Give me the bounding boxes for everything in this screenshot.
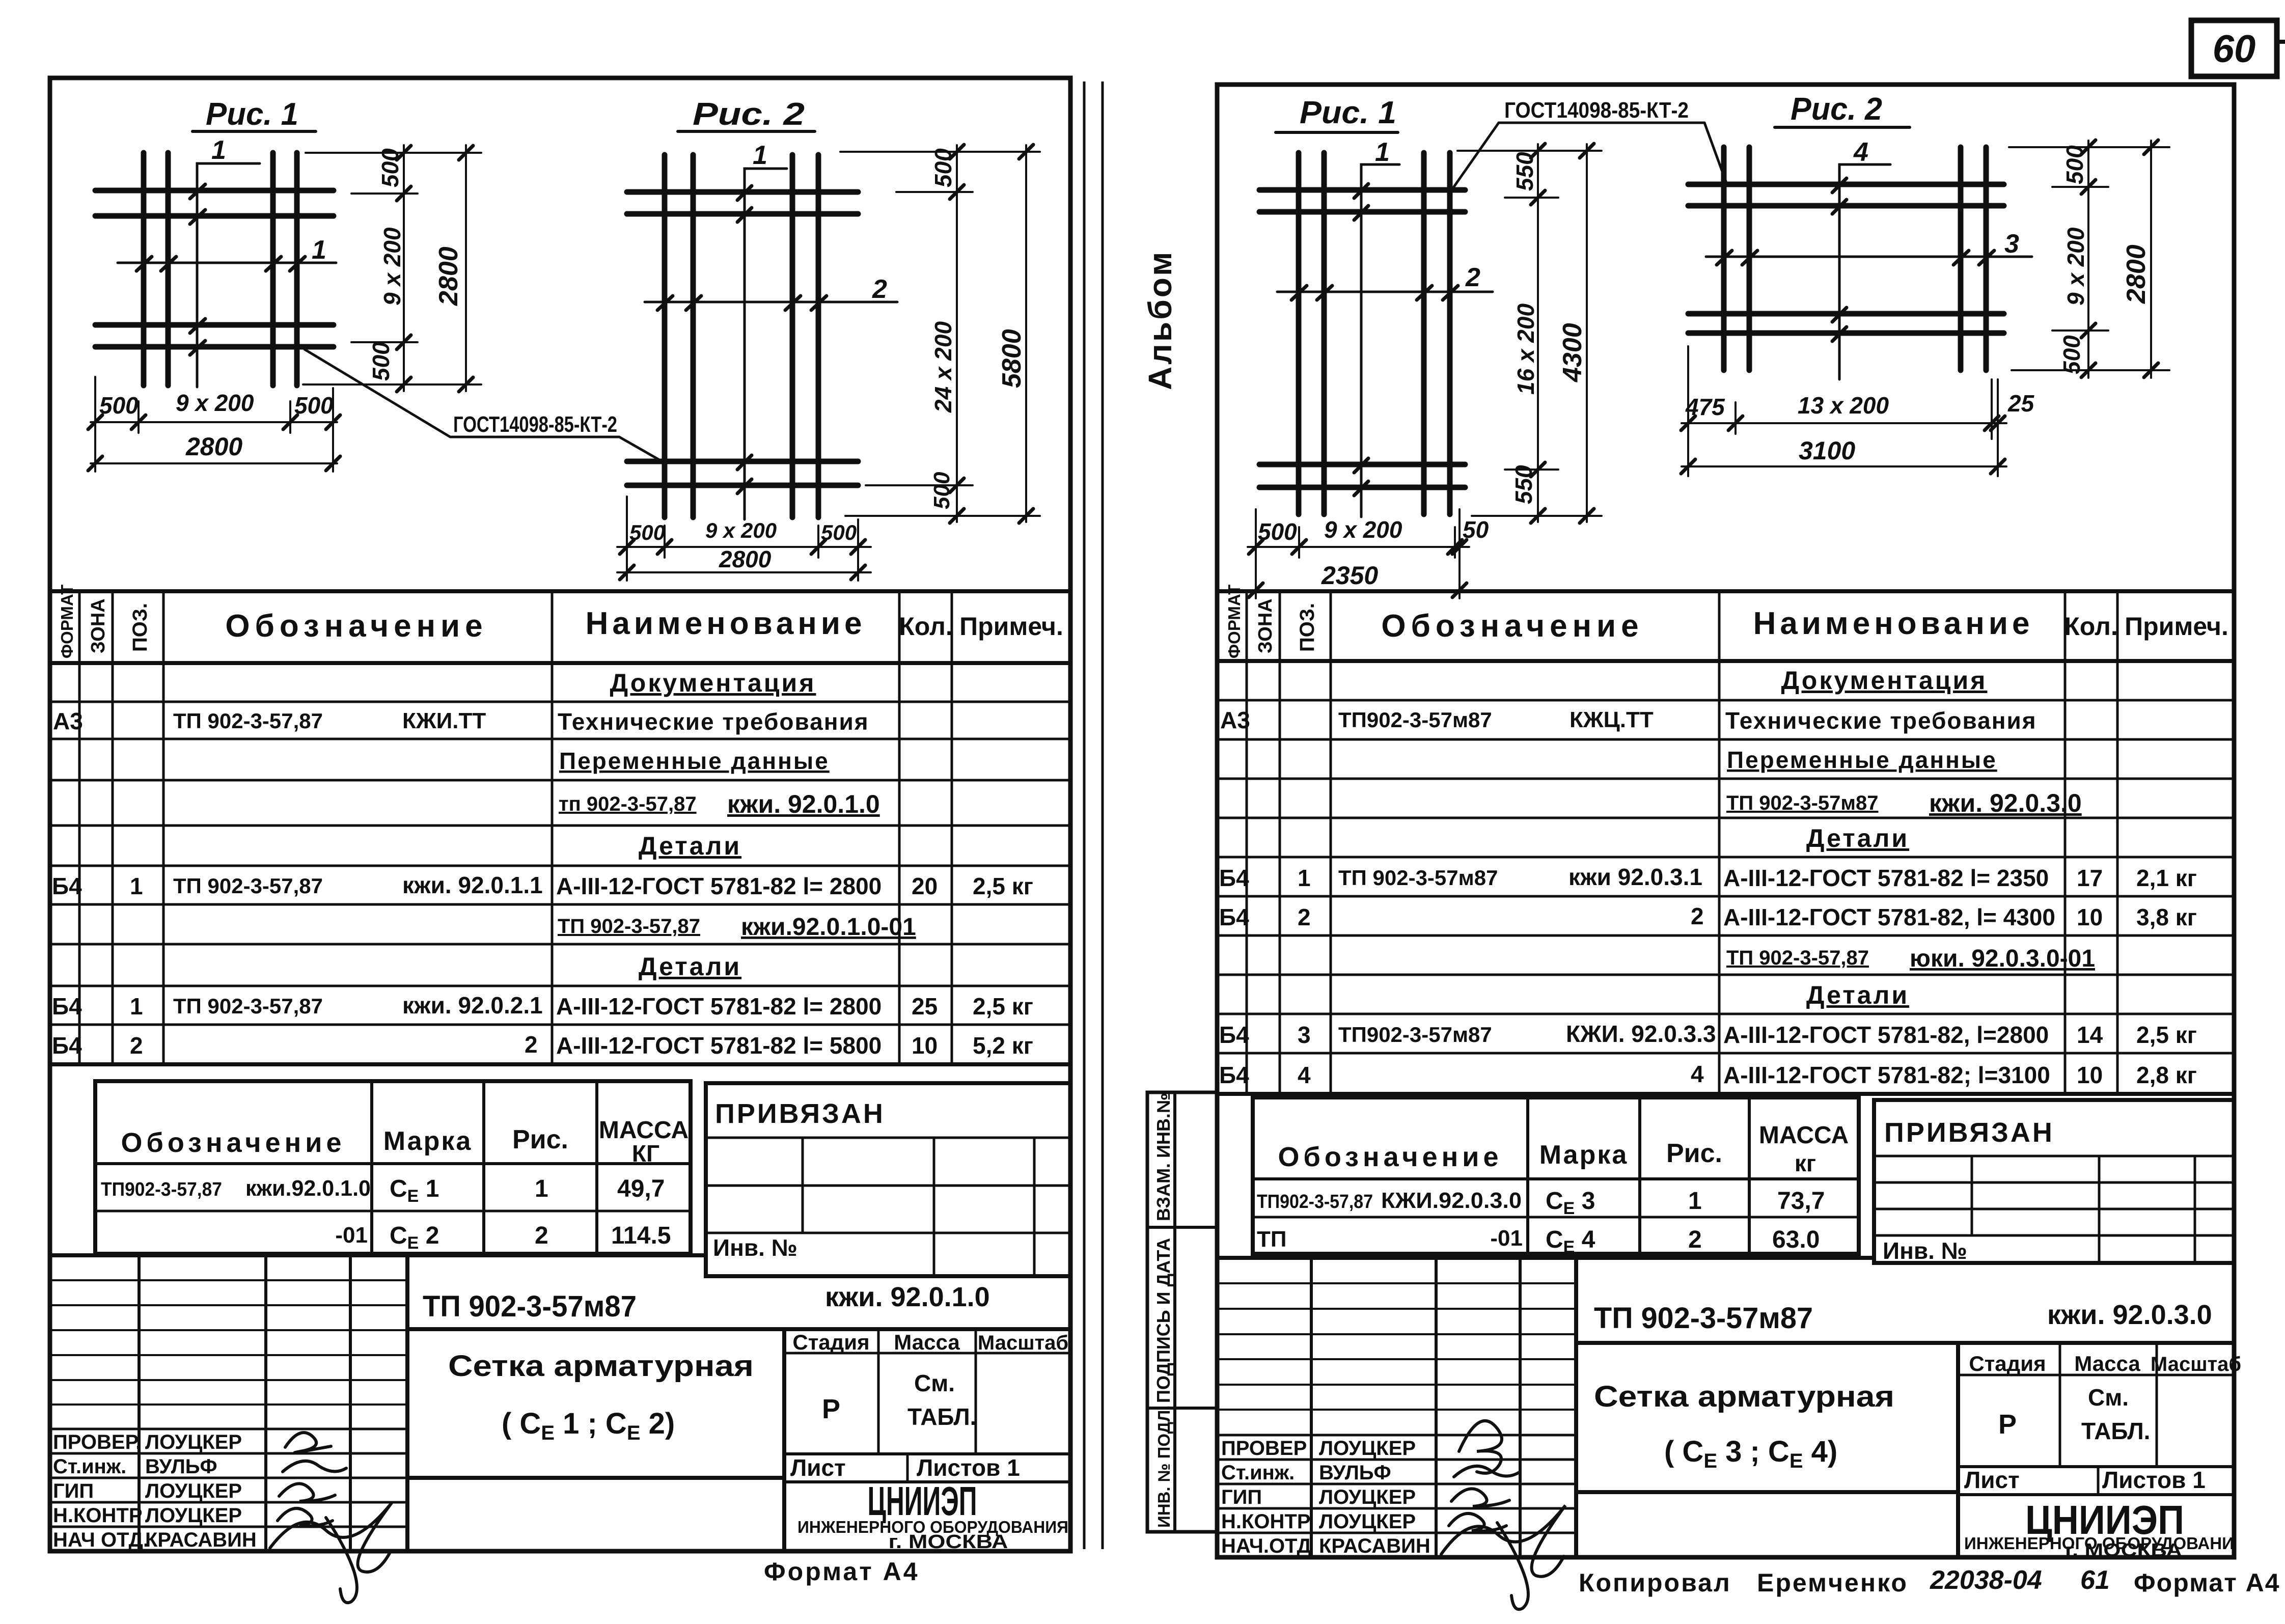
r-fig1 ticks vertical cut [1354,184,1368,496]
svg-text:550: 550 [1510,465,1537,504]
svg-text:25: 25 [912,993,938,1020]
right title sig row 2 [1217,1458,1576,1461]
right spec table header bottom [1217,659,2234,663]
right title row u2 [1217,1308,1576,1310]
r-fig1 dim line v1 16x200 [1537,144,1539,522]
right signature prover [1459,1421,1502,1473]
right title row u6 [1217,1409,1576,1411]
svg-text:2: 2 [872,274,887,304]
right spec row line 7 [1217,934,2234,937]
svg-text:кг: кг [1795,1150,1816,1176]
left spec row line 9 [50,1024,1070,1026]
svg-text:ТАБЛ.: ТАБЛ. [907,1403,976,1430]
r-fig2 extension bottom [2012,369,2169,371]
svg-text:ТП 902-3-57,87: ТП 902-3-57,87 [558,915,700,938]
svg-text:475: 475 [1685,394,1725,420]
ticks fig2 dim h1 [620,540,865,554]
svg-text:СЕ 4: СЕ 4 [1546,1226,1595,1257]
section 1 ticks on horizontal cut [136,257,305,271]
svg-text:2: 2 [130,1032,143,1059]
svg-text:Сетка арматурная: Сетка арматурная [1594,1380,1894,1413]
mesh M2 horizontal bar h3 [627,459,858,464]
left spec row line 5 [50,865,1070,867]
svg-text:2,5 кг: 2,5 кг [973,873,1033,899]
svg-text:Документация: Документация [1781,666,1988,695]
left title row u5 [50,1379,407,1381]
r-fig1 extension 550 bottom [1505,469,1558,471]
right spec row line 9 [1217,1013,2234,1015]
svg-text:ГОСТ14098-85-КТ-2: ГОСТ14098-85-КТ-2 [1504,98,1689,123]
svg-text:КРАСАВИН: КРАСАВИН [1319,1535,1430,1557]
r-fig2 ticks horizontal cut [1717,251,1994,265]
right signature n-kontr [1449,1513,1506,1531]
svg-text:Формат А4: Формат А4 [764,1557,920,1586]
dim line h1 500/9x200/500 [91,421,337,423]
fig2 extension 500 top [896,191,973,193]
svg-text:2: 2 [1691,903,1704,929]
left title row u4 [50,1354,407,1356]
svg-text:500: 500 [294,392,334,419]
svg-text:Масштаб: Масштаб [978,1332,1068,1354]
album divider line a [1083,81,1086,1549]
svg-text:юки. 92.0.3.0-01: юки. 92.0.3.0-01 [1910,945,2095,972]
svg-text:Кол.: Кол. [2064,612,2117,641]
svg-text:Ст.инж.: Ст.инж. [1221,1462,1295,1484]
svg-text:Еремченко: Еремченко [1757,1568,1908,1597]
svg-text:кжи. 92.0.3.0: кжи. 92.0.3.0 [2047,1300,2212,1330]
svg-text:1: 1 [312,235,326,265]
right signature st-inj [1454,1466,1520,1477]
svg-text:Н.КОНТР: Н.КОНТР [1221,1510,1311,1533]
right title row u5 [1217,1384,1576,1386]
svg-text:См.: См. [914,1370,955,1396]
section line 1-1 horizontal [118,262,336,264]
right title sig row 3 [1217,1483,1576,1485]
ticks dim h1 [88,415,340,429]
svg-text:2350: 2350 [1321,561,1378,590]
right spec col line kol [2116,591,2119,1094]
svg-text:500: 500 [2058,335,2085,374]
svg-text:2,5 кг: 2,5 кг [2136,1022,2197,1048]
svg-text:2,1 кг: 2,1 кг [2136,865,2197,891]
svg-text:Б4: Б4 [1219,904,1249,930]
svg-text:2,8 кг: 2,8 кг [2136,1062,2197,1088]
left small col massa [595,1081,598,1254]
svg-text:10: 10 [2077,904,2103,930]
r-fig2 dim line h2 3100 [1682,465,2006,467]
svg-text:9 x 200: 9 x 200 [2062,227,2089,306]
svg-text:4: 4 [1853,137,1868,167]
left list col [906,1454,909,1482]
mesh M2 vertical bar v4 [816,155,821,517]
r-fig2 dim line v2 2800 [2150,141,2152,378]
left spec table header bottom [50,661,1070,665]
svg-text:2800: 2800 [2122,244,2151,304]
left spec row line 8 [50,985,1070,987]
svg-text:Рис. 1: Рис. 1 [206,97,298,132]
left privyazan col 2 [933,1138,935,1276]
mesh M3 vertical bar v4 [1447,153,1453,514]
section line 2-2 horizontal fig2 [645,301,897,304]
svg-text:А-III-12-ГОСТ 5781-82, l=2800: А-III-12-ГОСТ 5781-82, l=2800 [1723,1022,2049,1048]
svg-text:ТП 902-3-57м87: ТП 902-3-57м87 [423,1290,637,1323]
svg-text:Лист: Лист [1964,1467,2020,1493]
left title top border [50,1253,706,1257]
svg-text:ЛОУЦКЕР: ЛОУЦКЕР [1319,1510,1416,1533]
svg-text:А-III-12-ГОСТ 5781-82 l= 5800: А-III-12-ГОСТ 5781-82 l= 5800 [556,1032,882,1059]
left small col marka [370,1081,373,1254]
svg-text:13 x 200: 13 x 200 [1798,392,1889,419]
right spec col line oboznachenie [1718,591,1721,1094]
svg-text:Лист: Лист [790,1454,846,1481]
mesh M1 horizontal bar h1 [95,188,334,194]
svg-text:500: 500 [821,520,857,544]
left small col ris [482,1081,485,1254]
svg-text:-01: -01 [335,1223,368,1248]
mesh M2 horizontal bar h1 [627,189,858,195]
svg-text:Инв. №: Инв. № [1883,1237,1967,1264]
svg-text:500: 500 [2061,145,2088,184]
mesh M2 vertical bar v2 [691,155,696,517]
svg-text:Технические требования: Технические требования [1725,707,2037,734]
svg-text:60: 60 [2213,27,2256,71]
svg-text:114.5: 114.5 [611,1222,671,1249]
r-fig2 section line 3 horizontal [1706,256,2032,258]
svg-text:ПРОВЕР.: ПРОВЕР. [53,1431,141,1453]
svg-text:63.0: 63.0 [1772,1226,1820,1253]
fig2 dim line v1 24x200 [956,145,958,522]
r-fig2 bottom extension x=3408 [1735,402,1737,434]
left title row u3 [50,1329,407,1331]
svg-text:ГИП: ГИП [53,1480,94,1502]
mesh M3 vertical bar v1 [1296,153,1302,514]
svg-text:НАЧ ОТД.: НАЧ ОТД. [53,1529,149,1551]
svg-text:Листов 1: Листов 1 [917,1454,1020,1481]
r-fig1 ticks horizontal cut [1291,286,1458,300]
r-fig2 ticks vertical cut [1832,178,1847,341]
svg-text:Стадия: Стадия [792,1330,869,1354]
svg-text:Б4: Б4 [52,993,82,1020]
svg-text:500: 500 [377,148,403,187]
r-fig1 extension 550 top [1505,197,1558,199]
svg-text:9 x 200: 9 x 200 [1324,516,1402,543]
svg-text:Переменные данные: Переменные данные [1727,747,1997,773]
fig2 title underline [678,130,815,133]
svg-text:3,8 кг: 3,8 кг [2136,904,2197,930]
svg-text:Примеч.: Примеч. [959,612,1063,641]
right privyazan line 2 [1874,1181,2234,1184]
mesh M4 vertical bar v4 [1984,147,1989,370]
svg-text:КРАСАВИН: КРАСАВИН [145,1529,257,1551]
left title sig row 5 [50,1526,407,1528]
fig2 bottom extension x=1607 [817,526,819,558]
svg-text:См.: См. [2088,1384,2129,1411]
fig2 extension top [840,151,1040,153]
svg-text:1: 1 [130,993,143,1020]
r-fig2 section line vertical [1839,164,1890,379]
svg-text:550: 550 [1511,152,1538,191]
mesh M1 horizontal bar h4 [95,344,334,350]
svg-text:Б4: Б4 [1219,1022,1249,1048]
left spec row line 3 [50,779,1070,782]
svg-text:Рис.: Рис. [512,1125,568,1154]
svg-text:ПОЗ.: ПОЗ. [129,603,151,652]
mesh M4 vertical bar v3 [1958,147,1964,370]
svg-text:Кол.: Кол. [899,612,952,641]
svg-text:НАЧ.ОТД: НАЧ.ОТД [1221,1535,1311,1557]
right title sig row 1 [1217,1434,1576,1437]
mesh M3 vertical bar v3 [1421,153,1427,514]
svg-text:ФОРМАТ: ФОРМАТ [58,585,76,658]
left spec col line zona [112,591,114,1064]
mesh M4 vertical bar v1 [1721,147,1727,370]
stamp column divider vertical [1173,1092,1176,1532]
left privyazan line 2 [706,1185,1070,1187]
svg-text:Инв. №: Инв. № [713,1234,797,1261]
extension line 500 upper [351,192,418,195]
svg-text:Обозначение: Обозначение [121,1127,345,1158]
mesh M3 vertical bar v2 [1322,153,1327,514]
svg-text:кжи.92.0.1.0: кжи.92.0.1.0 [245,1176,371,1201]
svg-text:Марка: Марка [383,1126,473,1156]
svg-text:Б4: Б4 [1219,1062,1249,1088]
svg-text:ВЗАМ. ИНВ.№: ВЗАМ. ИНВ.№ [1153,1093,1174,1221]
svg-text:Переменные данные: Переменные данные [559,748,830,774]
mesh M1 vertical bar v2 [166,153,171,386]
right spec table top border [1217,589,2234,593]
svg-text:Б4: Б4 [1219,865,1249,891]
svg-text:Рис. 1: Рис. 1 [1300,95,1396,130]
svg-text:Рис. 2: Рис. 2 [693,97,805,132]
left title sig row 3 [50,1477,407,1479]
right privyazan line 3 [1874,1208,2234,1210]
left small table row line [95,1210,691,1213]
left title col c [349,1255,352,1551]
svg-text:КЖИ.ТТ: КЖИ.ТТ [402,708,486,733]
svg-text:Стадия: Стадия [1969,1352,2046,1375]
right stadia col 1 [2059,1343,2061,1467]
svg-text:3: 3 [2004,229,2019,259]
svg-text:ТП902-3-57м87: ТП902-3-57м87 [1338,708,1492,732]
extension line 500 lower [351,341,418,343]
svg-text:25: 25 [2007,390,2035,417]
svg-text:9 x 200: 9 x 200 [176,390,254,416]
right spec row line 10 [1217,1052,2234,1055]
left title sig row 4 [50,1501,407,1504]
left privyazan line 1 [706,1137,1070,1139]
svg-text:ВУЛЬФ: ВУЛЬФ [1319,1462,1391,1484]
left title name bottom [407,1476,784,1480]
right title stamp col [1956,1343,1960,1557]
left spec col line naimenovanie [898,591,901,1064]
svg-text:Копировал: Копировал [1579,1568,1731,1597]
left title row u2 [50,1304,407,1306]
mesh M1 vertical bar v4 [294,153,300,386]
svg-text:Детали: Детали [1806,981,1909,1009]
svg-text:2,5 кг: 2,5 кг [973,993,1033,1020]
svg-text:2800: 2800 [719,546,772,572]
r-fig2 extension top [2009,146,2169,148]
mesh M3 horizontal bar h1 [1259,187,1465,193]
right stadia bottom [1958,1465,2234,1468]
right privyazan line 4 [1874,1234,2234,1237]
left title row u6 [50,1403,407,1406]
right privyazan line 1 [1874,1155,2234,1158]
right small table row line [1253,1216,1859,1219]
left spec row line 7 [50,943,1070,946]
right privyazan col 3 [2194,1156,2196,1263]
bottom extension x=654 [332,388,334,472]
svg-text:кжи. 92.0.3.0: кжи. 92.0.3.0 [1929,789,2082,817]
svg-text:ЛОУЦКЕР: ЛОУЦКЕР [1319,1437,1416,1460]
left stadia col 1 [877,1329,880,1454]
r-fig2 bottom extension x=3911 [1991,379,1993,439]
left signature prover [285,1433,331,1452]
svg-text:А-III-12-ГОСТ 5781-82 l= 2350: А-III-12-ГОСТ 5781-82 l= 2350 [1723,865,2049,891]
r-fig1 dim line v2 4300 [1586,144,1588,522]
svg-text:1: 1 [753,141,767,170]
left small table outer [95,1081,691,1254]
left privyazan outer [706,1083,1070,1276]
right spec row line 4 [1217,817,2234,819]
left title sig row 2 [50,1452,407,1455]
svg-text:ТП 902-3-57м87: ТП 902-3-57м87 [1338,866,1498,890]
svg-text:МАССА: МАССА [1759,1122,1849,1149]
svg-text:ТП 902-3-57,87: ТП 902-3-57,87 [173,874,323,898]
stamp column line 2 [1147,1407,1217,1410]
svg-text:ТАБЛ.: ТАБЛ. [2081,1418,2150,1444]
svg-text:кжи. 92.0.2.1: кжи. 92.0.2.1 [402,992,543,1019]
left spec row line 1 [50,701,1070,703]
svg-text:2: 2 [525,1031,538,1058]
svg-text:2: 2 [1688,1226,1702,1253]
r-fig1 bottom extension x=2857 [1454,527,1456,558]
svg-text:ПОЗ.: ПОЗ. [1296,603,1318,652]
mesh M1 horizontal bar h3 [95,322,334,328]
svg-text:ГОСТ14098-85-КТ-2: ГОСТ14098-85-КТ-2 [453,412,617,437]
left spec col line format [78,591,81,1064]
svg-text:4: 4 [1298,1062,1311,1088]
fig2 bottom extension x=1231 [626,497,628,581]
right title col c [1519,1258,1522,1557]
ticks dim v2 [459,146,473,392]
svg-text:500: 500 [929,472,954,509]
r-gost leader left [1452,123,1499,189]
left spec row line 2 [50,738,1070,740]
svg-text:ЗОНА: ЗОНА [1255,598,1276,653]
r-fig2 ticks dim h2 [1681,459,2005,474]
svg-text:ТП902-3-57,87: ТП902-3-57,87 [1257,1191,1373,1213]
svg-text:500: 500 [368,342,394,381]
svg-text:А3: А3 [1220,707,1250,733]
svg-text:2: 2 [535,1222,548,1249]
r-fig1 section line vertical [1361,164,1399,517]
svg-text:Масштаб: Масштаб [2151,1353,2241,1375]
fig1 title underline [192,130,316,133]
svg-text:16 x 200: 16 x 200 [1512,304,1539,395]
svg-text:Рис.: Рис. [1666,1139,1722,1168]
right spec row line 3 [1217,778,2234,780]
svg-text:Наименование: Наименование [586,606,866,641]
svg-text:А-III-12-ГОСТ 5781-82, l= 4300: А-III-12-ГОСТ 5781-82, l= 4300 [1723,904,2055,930]
mesh M2 vertical bar v1 [662,155,668,517]
left title col b [264,1255,267,1551]
svg-text:А-III-12-ГОСТ 5781-82 l= 2800: А-III-12-ГОСТ 5781-82 l= 2800 [556,873,882,899]
sheet 1 frame [50,78,1070,1551]
svg-text:А-III-12-ГОСТ 5781-82 l= 2800: А-III-12-ГОСТ 5781-82 l= 2800 [556,993,882,1020]
r-fig1 bottom extension x=2466 [1255,509,1257,598]
svg-text:КЖИ. 92.0.3.3: КЖИ. 92.0.3.3 [1566,1021,1716,1047]
svg-text:2: 2 [1298,904,1311,930]
r-fig1 ticks dim h1 [1249,540,1467,554]
left privyazan line 3 [706,1232,1070,1234]
svg-text:Масса: Масса [2074,1352,2140,1375]
left signature nach-otd flourish [270,1502,392,1603]
dim line v1 9x200 [403,145,405,391]
ticks dim h2 [88,456,340,471]
right small col marka [1526,1097,1529,1254]
right stadia col 2 [2156,1343,2158,1467]
svg-text:Детали: Детали [639,832,741,860]
r-fig2 title underline [1775,126,1910,129]
svg-text:ПРИВЯЗАН: ПРИВЯЗАН [715,1098,885,1129]
svg-text:4300: 4300 [1558,323,1587,382]
right spec col line zona [1279,591,1281,1094]
left signatures squiggles [270,1433,392,1603]
right spec row line 5 [1217,856,2234,859]
r-fig2 ticks dim v1 [2081,140,2096,377]
svg-text:10: 10 [2077,1062,2103,1088]
ticks dim v1 [397,146,411,392]
svg-text:Рис. 2: Рис. 2 [1791,92,1882,127]
svg-text:Примеч.: Примеч. [2125,612,2228,641]
svg-text:3: 3 [1298,1022,1311,1048]
svg-text:1: 1 [1375,137,1390,167]
fig2 dim line h1 [617,546,871,548]
svg-text:ТП 902-3-57м87: ТП 902-3-57м87 [1594,1302,1813,1335]
fig2 bottom extension x=1305 [664,526,666,558]
svg-text:Ст.инж.: Ст.инж. [53,1455,126,1478]
svg-text:кжи 92.0.3.1: кжи 92.0.3.1 [1568,864,1702,890]
svg-text:г. МОСКВА: г. МОСКВА [889,1531,1008,1553]
svg-text:( СЕ 1 ; СЕ 2): ( СЕ 1 ; СЕ 2) [502,1407,675,1444]
right spec col line poz [1330,591,1332,1094]
ticks on horizontal cut fig2 [657,296,827,310]
svg-text:73,7: 73,7 [1777,1188,1825,1215]
svg-text:9 x 200: 9 x 200 [705,518,777,542]
svg-text:Документация: Документация [610,669,816,697]
svg-text:Марка: Марка [1539,1140,1629,1170]
svg-text:500: 500 [99,392,139,419]
mesh M2 horizontal bar h4 [627,483,858,488]
svg-text:ЛОУЦКЕР: ЛОУЦКЕР [145,1504,242,1527]
svg-text:ЗОНА: ЗОНА [88,598,109,653]
fig2 dim line v2 5800 [1025,145,1027,522]
svg-text:1: 1 [130,873,143,899]
left stadia bottom [784,1452,1070,1455]
left signature st-inj [283,1461,346,1472]
svg-text:ТП 902-3-57м87: ТП 902-3-57м87 [1726,792,1879,814]
right small col massa [1748,1097,1751,1254]
right title col a [1310,1258,1313,1557]
svg-text:ЦНИИЭП: ЦНИИЭП [868,1478,977,1524]
svg-text:ТП: ТП [1257,1227,1287,1252]
r-fig1 bottom extension x=2866 [1458,509,1461,598]
leader line GOST weld [305,349,662,461]
r-fig1 extension top [1457,150,1602,152]
svg-text:1: 1 [1298,865,1311,891]
left spec table top border [50,589,1070,593]
